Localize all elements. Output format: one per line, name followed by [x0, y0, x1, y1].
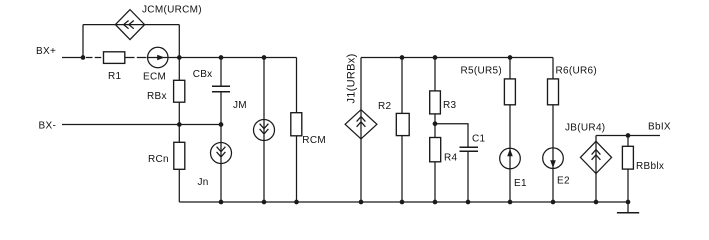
resistor R1	[104, 52, 125, 82]
wire CBx bottom lead	[220, 92, 222, 125]
junction dot rail RCM	[294, 200, 299, 205]
wire RBblx bottom lead	[627, 169, 629, 202]
wire RCn top lead	[178, 125, 180, 143]
wire RCn bottom lead	[178, 169, 180, 202]
svg-text:ECM: ECM	[143, 71, 166, 82]
wire bottom rail	[179, 201, 628, 203]
wire dashed lead to R1	[86, 57, 102, 59]
wire E2 bottom lead	[552, 169, 554, 203]
wire JCM loop left horizontal	[83, 24, 115, 26]
svg-text:BX-: BX-	[39, 120, 57, 131]
wire R2 top lead	[401, 58, 403, 114]
current source J1(URBx) diamond	[345, 53, 377, 138]
wire JCM loop right vertical	[178, 25, 180, 58]
junction dot rail R2	[400, 200, 405, 205]
wire BX- line	[62, 124, 221, 126]
svg-text:JB(UR4): JB(UR4)	[565, 122, 605, 133]
junction dot rail JM	[262, 200, 267, 205]
junction dot rail R3	[433, 55, 438, 60]
wire R5 top lead	[509, 58, 511, 79]
wire R4 bottom lead	[434, 162, 436, 202]
svg-text:R5(UR5): R5(UR5)	[461, 66, 503, 77]
wire output BbIX line	[596, 135, 660, 137]
resistor R6(UR6)	[548, 66, 598, 105]
wire RBx bottom lead	[178, 102, 180, 124]
junction dot rail C1	[466, 200, 471, 205]
junction dot R3/R4/C1 node	[433, 121, 438, 126]
capacitor CBx	[193, 69, 230, 92]
svg-text:J1(URBx): J1(URBx)	[346, 53, 358, 103]
wire BX+ right run	[179, 57, 296, 59]
wire C1 bottom lead	[467, 151, 469, 202]
wire JB bottom lead	[595, 174, 597, 203]
svg-text:RBblx: RBblx	[636, 161, 664, 172]
wire dashed lead R1 to ECM	[125, 57, 148, 59]
svg-text:R1: R1	[108, 71, 122, 82]
ground	[617, 202, 639, 213]
svg-text:CBx: CBx	[193, 69, 213, 80]
op source ECM (circle with right arrow)	[143, 47, 168, 82]
node BbIX label	[648, 121, 671, 132]
current source JM (circle, double chevron down)	[233, 100, 275, 141]
junction dot rail R2	[400, 55, 405, 60]
junction dot rail E1	[508, 200, 513, 205]
svg-text:Jn: Jn	[198, 177, 209, 188]
junction dot BX- RBx	[177, 122, 182, 127]
svg-text:R3: R3	[443, 100, 457, 111]
resistor RCM	[291, 113, 326, 147]
svg-text:JM: JM	[233, 100, 247, 111]
resistor R3	[430, 91, 457, 114]
junction dot JM top	[262, 55, 267, 60]
wire CBx top lead	[220, 58, 222, 87]
wire RBx top lead	[178, 58, 180, 81]
node BX- label	[39, 120, 57, 131]
source E2 (circle, solid down arrow)	[543, 148, 570, 187]
node BX+ label	[36, 46, 56, 57]
svg-text:RCn: RCn	[148, 154, 169, 165]
wire JCM loop right horizontal	[145, 24, 180, 26]
svg-text:BbIX: BbIX	[648, 121, 671, 132]
resistor R2	[378, 101, 409, 136]
junction dot rail R5	[508, 55, 513, 60]
junction dot rail Jn	[219, 200, 224, 205]
svg-text:R6(UR6): R6(UR6)	[556, 66, 598, 77]
wire E1 bottom lead	[509, 169, 511, 202]
junction dot rail JB	[594, 200, 599, 205]
resistor RBx	[147, 80, 185, 102]
wire JM upper lead	[263, 58, 265, 120]
junction dot BX+ left	[81, 55, 86, 60]
wire R2 bottom lead	[401, 136, 403, 202]
wire R6 to E2	[552, 105, 554, 148]
wire middle top rail	[361, 57, 553, 59]
resistor R5(UR5)	[461, 66, 516, 105]
wire RCM bottom lead	[296, 136, 298, 202]
wire JCM loop left vertical	[82, 25, 84, 58]
junction dot CBx top	[219, 55, 224, 60]
junction dot rail ground	[626, 200, 631, 205]
wire J1 bottom lead	[360, 139, 362, 202]
wire R5 to E1	[509, 105, 511, 148]
svg-text:R2: R2	[378, 101, 392, 112]
wire Jn upper lead	[220, 125, 222, 143]
wire JM bottom lead	[263, 141, 265, 203]
wire ECM to node	[168, 57, 179, 59]
current source JB(UR4) diamond	[565, 122, 612, 173]
junction dot rail R4	[433, 200, 438, 205]
resistor RCn	[148, 142, 185, 169]
wire R3 to node	[434, 114, 436, 138]
resistor RBblx	[622, 146, 664, 172]
junction dot output RBblx	[626, 133, 631, 138]
svg-text:RCM: RCM	[302, 135, 326, 146]
wire RBblx top lead	[627, 136, 629, 147]
junction dot rail E2	[551, 200, 556, 205]
wire J1 top lead	[360, 58, 362, 110]
wire BX+ left segment	[62, 57, 84, 59]
svg-text:E2: E2	[557, 176, 570, 187]
svg-text:R4: R4	[444, 153, 458, 164]
svg-text:BX+: BX+	[36, 46, 56, 57]
wire node to C1 branch	[435, 124, 468, 148]
current source Jn (circle, double chevron down)	[198, 143, 232, 189]
junction dot BX- Jn	[219, 122, 224, 127]
junction dot rail J1	[359, 200, 364, 205]
svg-text:E1: E1	[514, 178, 527, 189]
svg-text:JCM(URCM): JCM(URCM)	[142, 4, 202, 15]
junction dot node RBx top	[177, 55, 182, 60]
capacitor C1	[460, 134, 486, 152]
source E1 (circle, solid up arrow)	[500, 148, 527, 189]
wire Jn bottom lead	[220, 164, 222, 203]
svg-text:C1: C1	[472, 134, 486, 145]
wire R6 column top	[552, 58, 554, 79]
current source JCM(URCM) diamond	[115, 4, 202, 39]
wire JB top stub	[595, 136, 597, 142]
wire R3 top lead	[434, 58, 436, 91]
svg-text:RBx: RBx	[147, 91, 167, 102]
resistor R4	[430, 138, 458, 164]
wire RCM column top	[296, 58, 298, 113]
